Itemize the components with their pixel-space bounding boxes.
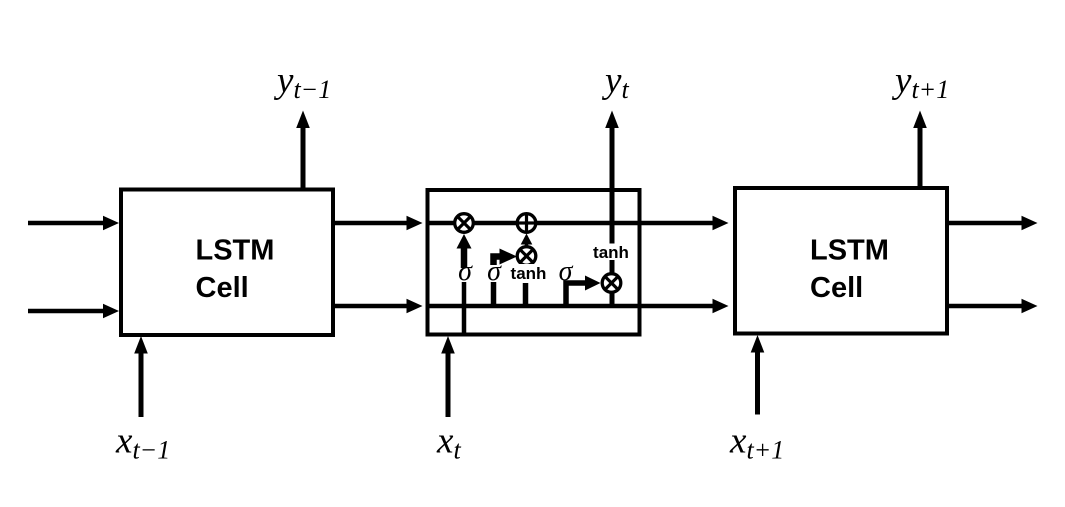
arrow: output gate elbow into output multiply gate xyxy=(566,283,589,306)
arrow: input x(t) into middle cell xyxy=(446,352,451,417)
wire: candidate column stub xyxy=(523,282,529,306)
right LSTM cell box xyxy=(735,188,947,334)
svg-text:σ: σ xyxy=(487,256,502,287)
wire: hidden state line through middle cell to right cell xyxy=(428,304,715,309)
arrow: forget gate sigma into multiply gate xyxy=(461,247,468,268)
left LSTM cell box xyxy=(121,190,333,336)
svg-text:Cell: Cell xyxy=(810,272,863,304)
svg-text:σ: σ xyxy=(559,256,574,287)
add gate plus xyxy=(517,214,536,233)
arrow: candidate multiply gate into add gate xyxy=(525,242,529,246)
svg-text:tanh: tanh xyxy=(593,243,629,262)
wire: cell-state output of right cell xyxy=(947,221,1023,226)
wire: cell-state input into left cell xyxy=(28,221,105,226)
label: output tanh xyxy=(590,244,633,261)
wire: hidden-state input into left cell xyxy=(28,309,105,314)
svg-text:Cell: Cell xyxy=(196,272,249,304)
wire: forget-gate column from box bottom through hidden line xyxy=(462,282,467,335)
arrow: output y(t+1) from right cell xyxy=(918,127,923,188)
wire: cell state line through middle cell to right cell xyxy=(428,221,715,226)
middle LSTM cell box xyxy=(428,190,640,335)
label: candidate tanh xyxy=(508,264,550,283)
arrow: output y(t) long line through middle cell xyxy=(610,127,615,306)
arrow: input gate elbow into multiply gate xyxy=(494,257,502,266)
svg-text:tanh: tanh xyxy=(511,264,547,283)
wire: input-gate column stub xyxy=(491,282,497,306)
arrow: input x(t+1) into right cell xyxy=(755,351,760,415)
multiply gate X3 (output) xyxy=(602,274,621,293)
arrow: input x(t-1) into left cell xyxy=(139,352,144,417)
multiply gate X2 (input/candidate) xyxy=(517,247,536,266)
wire: hidden state left cell to middle cell xyxy=(333,304,408,309)
wire: cell state left cell to middle cell xyxy=(333,221,408,226)
wire: hidden-state output of right cell xyxy=(947,304,1023,309)
multiply gate X1 (forget) xyxy=(455,214,474,233)
svg-text:σ: σ xyxy=(458,256,473,287)
svg-text:LSTM: LSTM xyxy=(810,235,889,267)
arrow: output y(t-1) from left cell xyxy=(301,127,306,190)
svg-text:LSTM: LSTM xyxy=(196,235,275,267)
